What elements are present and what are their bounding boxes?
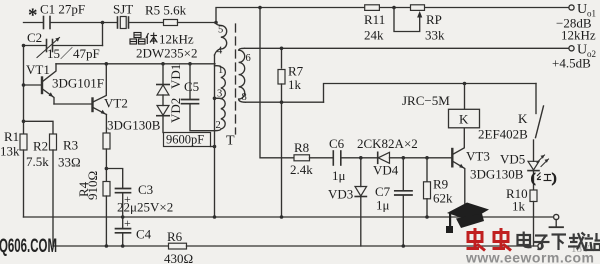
wire VD2 down to 9600pF box: [162, 116, 164, 133]
wire zener column top: [162, 64, 164, 85]
svg-text:3: 3: [217, 89, 222, 100]
wire R5 to pin5 node: [178, 22, 217, 24]
svg-text:1: 1: [218, 65, 223, 76]
wire R8 to C6: [310, 157, 333, 159]
label ti body char: [146, 33, 157, 45]
wire C6 to VD4: [342, 157, 378, 159]
svg-text:1k: 1k: [512, 199, 526, 214]
wire top rail Uo1: [216, 8, 569, 23]
svg-text:9600pF: 9600pF: [166, 133, 204, 147]
svg-text:C4: C4: [136, 227, 152, 242]
transformer T primary winding 3-2: [215, 98, 226, 130]
wire pin8 row: [246, 101, 324, 103]
wire crystal to R5: [129, 22, 164, 24]
svg-text:R11: R11: [364, 12, 385, 27]
svg-text:C3: C3: [138, 182, 153, 197]
svg-text:K: K: [459, 112, 469, 127]
svg-text:33k: 33k: [425, 28, 445, 43]
wire C3 to ground rail: [122, 193, 124, 217]
wire bottom rail right: [187, 245, 538, 247]
wire relay row: [324, 84, 537, 103]
node C1/C2/crystal junction: [101, 21, 105, 25]
svg-text:3DG101F: 3DG101F: [52, 76, 104, 91]
diode VD1 zener: [157, 85, 169, 96]
wire left rail: [23, 46, 25, 135]
capacitor C5: [182, 100, 199, 104]
capacitor C3: [116, 189, 131, 193]
svg-text:1μ: 1μ: [376, 198, 390, 213]
wire bus to ground rail: [214, 131, 216, 217]
crystal SJT: [118, 17, 129, 28]
diode VD3: [355, 158, 367, 246]
svg-text:VD3: VD3: [328, 187, 353, 202]
label hong red char: [531, 170, 556, 185]
svg-text:2.4k: 2.4k: [290, 162, 313, 177]
resistor R6: [169, 243, 187, 249]
terminal -18V: [538, 243, 543, 248]
wire R7 bottom: [281, 84, 283, 102]
wire C3 branch: [106, 169, 122, 189]
wire R7 top to Uo2 rail: [281, 48, 283, 68]
wire VT1/VT2 collector row: [56, 63, 215, 65]
hand-drawn CJK glyphs: [130, 33, 556, 186]
svg-text:RP: RP: [426, 12, 442, 27]
svg-text:C1 27pF: C1 27pF: [40, 2, 85, 17]
svg-text:7.5k: 7.5k: [26, 154, 49, 169]
svg-text:VD1: VD1: [168, 64, 183, 89]
transistor VT3: [452, 128, 465, 217]
terminal ground: [554, 214, 559, 219]
svg-text:12kHz: 12kHz: [159, 32, 194, 47]
svg-text:SJT: SJT: [113, 2, 133, 17]
wire R4 to bottom rail: [105, 196, 107, 246]
potentiometer RP: [394, 5, 425, 32]
wire top-rail drop to R8: [260, 8, 294, 158]
wire VD1 to VD2: [162, 95, 164, 106]
svg-text:T: T: [226, 134, 235, 149]
node rail1 R7col junction: [280, 215, 284, 219]
wire R1 to ground rail: [23, 150, 25, 217]
node rail1 C3 junction: [121, 215, 125, 219]
wire VT2 emitter down to R3: [105, 115, 107, 134]
resistor R10: [530, 190, 537, 202]
svg-text:VT2: VT2: [104, 96, 128, 111]
svg-text:1k: 1k: [288, 77, 302, 92]
svg-text:*: *: [28, 5, 38, 26]
svg-text:+4.5dB: +4.5dB: [552, 56, 591, 71]
transistor VT1: [42, 64, 56, 104]
wire C2 loop riser: [102, 23, 104, 46]
wire relay coil top: [464, 84, 466, 110]
svg-text:VT1: VT1: [26, 62, 50, 77]
wire C4 stubs: [122, 217, 124, 228]
node R7 top junction: [280, 47, 284, 51]
node relay coil junction: [463, 82, 467, 86]
LED VD5: [528, 155, 549, 190]
terminal Uo2: [569, 46, 574, 51]
node VD3 junction: [359, 156, 363, 160]
switch K: [534, 84, 544, 162]
svg-text:VD2: VD2: [168, 98, 183, 123]
svg-text:15／47pF: 15／47pF: [47, 46, 100, 61]
node pin3 junction: [213, 97, 217, 101]
diode VD2 zener: [157, 106, 169, 116]
svg-text:VT3: VT3: [466, 149, 490, 164]
wire C1 row: [24, 22, 44, 24]
svg-text:Q606.COM: Q606.COM: [0, 236, 57, 257]
wire R2 to bottom rail: [52, 150, 54, 246]
svg-text:2: 2: [216, 120, 221, 131]
resistor R3: [103, 133, 110, 149]
svg-text:8: 8: [242, 92, 247, 103]
diode VD4: [378, 152, 390, 163]
transformer T primary winding 1-3: [215, 66, 226, 99]
wire R3 to R4: [105, 149, 107, 182]
capacitor C7: [395, 158, 412, 246]
wire VT1 base: [24, 84, 42, 86]
resistor R1: [20, 134, 27, 150]
node top-rail/R5/pin5 junction: [214, 21, 218, 25]
watermark graduation cap logo: [446, 203, 489, 234]
node C7 junction: [402, 156, 406, 160]
relay coil K box: [449, 109, 480, 128]
svg-text:33Ω: 33Ω: [58, 155, 81, 170]
wire VD4 to VT3 base: [390, 157, 453, 159]
svg-text:430Ω: 430Ω: [164, 251, 193, 264]
svg-text:62k: 62k: [433, 191, 453, 206]
resistor R11: [365, 5, 380, 11]
wire R2 branch: [24, 121, 54, 134]
node rail3 C4 junction: [121, 244, 125, 248]
transformer T core: [235, 24, 237, 134]
svg-text:2DW235×2: 2DW235×2: [136, 46, 198, 61]
svg-text:R3: R3: [63, 138, 78, 153]
svg-text:C6: C6: [329, 136, 345, 151]
wire ground rail: [24, 216, 554, 218]
node collector row / C5 junction: [188, 62, 192, 66]
node rail3 C7 junction: [402, 244, 406, 248]
node collector row / zener junction: [161, 62, 165, 66]
resistor R8: [294, 155, 310, 161]
svg-text:+: +: [124, 216, 131, 230]
transformer T secondary winding 6-8: [239, 48, 246, 102]
label jing crystal char: [130, 33, 145, 45]
svg-text:2CK82A×2: 2CK82A×2: [357, 136, 418, 151]
svg-text:3DG130B: 3DG130B: [470, 167, 524, 182]
svg-text:R5 5.6k: R5 5.6k: [145, 3, 187, 18]
watermark dianzi xiazaizhan chars: [518, 232, 600, 251]
resistor R4: [103, 182, 110, 197]
node R2 branch junction: [22, 120, 26, 124]
svg-text:): ): [552, 170, 556, 185]
svg-text:1μ: 1μ: [332, 168, 346, 183]
node R7 bottom junction: [280, 100, 284, 104]
svg-text:R2: R2: [33, 139, 48, 154]
svg-text:12kHz: 12kHz: [561, 28, 596, 43]
svg-text:C2: C2: [27, 30, 42, 45]
node rail1 R9 junction: [425, 215, 429, 219]
svg-text:5: 5: [218, 25, 223, 36]
resistor R7: [278, 70, 285, 85]
node bus/box junction: [213, 145, 217, 149]
ground symbol: [550, 220, 564, 228]
svg-text:6: 6: [246, 53, 251, 64]
svg-text:910Ω: 910Ω: [85, 171, 100, 200]
capacitor C6: [333, 151, 341, 165]
node collector row / VT2 junction: [105, 62, 109, 66]
svg-text:R9: R9: [433, 177, 448, 192]
capacitor C4: [116, 229, 131, 233]
transistor VT2: [93, 64, 107, 115]
watermark chongchong red chars: [467, 228, 512, 251]
svg-text:K: K: [518, 111, 528, 126]
transformer T primary bus: [214, 55, 216, 131]
svg-text:22μ25V×2: 22μ25V×2: [117, 200, 173, 215]
node VT1 base junction: [22, 83, 26, 87]
terminal Uo1: [569, 5, 574, 10]
svg-text:4: 4: [217, 46, 223, 57]
wire C2 row: [24, 45, 46, 47]
svg-text:R6: R6: [167, 229, 183, 244]
wire rail Uo2 (transformer pin 6 row): [245, 47, 570, 49]
wire VT1 emitter to VT2 base: [54, 103, 93, 105]
wire R10 to bottom rail: [533, 202, 535, 247]
wire box stub to bus: [211, 146, 215, 148]
svg-text:VD4: VD4: [373, 163, 399, 178]
node C2 left junction: [22, 44, 26, 48]
node top-rail drop junction: [258, 6, 262, 10]
svg-text:(: (: [531, 170, 535, 185]
svg-text:www.eeworm.com: www.eeworm.com: [465, 250, 594, 264]
node RP wiper junction: [392, 6, 396, 10]
svg-text:R1: R1: [4, 129, 19, 144]
node R9 junction: [425, 156, 429, 160]
resistor R5: [164, 20, 178, 26]
wire C5 column: [189, 64, 191, 99]
svg-text:VD5: VD5: [500, 152, 525, 167]
capacitor C2 variable: [47, 40, 53, 52]
wire R7 column to ground rail: [281, 102, 283, 217]
label box 9600pF: [164, 133, 211, 147]
node rail1 VT3 emitter junction: [463, 215, 467, 219]
wire C5 bottom L to bus: [190, 104, 215, 131]
node rail3 R4 junction: [105, 244, 109, 248]
svg-text:3DG130B: 3DG130B: [107, 118, 161, 133]
capacitor C1: [44, 17, 51, 29]
svg-text:JRC−5M: JRC−5M: [402, 93, 450, 108]
svg-text:R8: R8: [294, 140, 309, 155]
resistor R2: [50, 134, 57, 150]
svg-text:24k: 24k: [364, 28, 384, 43]
transformer T primary winding 5-4: [215, 23, 227, 56]
svg-text:C5: C5: [184, 79, 199, 94]
wire bottom rail: [53, 245, 169, 247]
svg-text:2EF402B: 2EF402B: [478, 127, 528, 142]
svg-text:13k: 13k: [0, 144, 20, 159]
node rail1 bus junction: [213, 215, 217, 219]
node C3 branch junction: [105, 167, 109, 171]
resistor R9: [424, 158, 431, 217]
